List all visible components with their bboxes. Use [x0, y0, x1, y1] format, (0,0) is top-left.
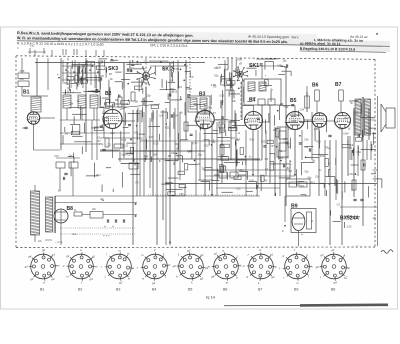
- svg-text:C34: C34: [174, 115, 179, 118]
- svg-text:50p: 50p: [144, 155, 149, 158]
- svg-text:0,5M: 0,5M: [343, 133, 348, 136]
- svg-text:R: R: [311, 219, 313, 223]
- svg-text:50p: 50p: [304, 170, 309, 173]
- svg-text:R15: R15: [204, 145, 209, 148]
- svg-text:=: =: [17, 46, 19, 50]
- svg-text:R15: R15: [261, 141, 266, 144]
- svg-text:g1: g1: [52, 252, 56, 256]
- svg-text:ac 466kHz afgel. 3x 4b 12: ac 466kHz afgel. 3x 4b 12: [300, 41, 341, 46]
- svg-text:g2: g2: [316, 265, 320, 269]
- svg-text:2M: 2M: [153, 154, 156, 157]
- svg-text:0,05: 0,05: [154, 143, 159, 146]
- svg-text:g2: g2: [42, 248, 46, 252]
- svg-text:50p: 50p: [144, 61, 149, 64]
- svg-text:g4: g4: [334, 281, 338, 285]
- svg-text:C12: C12: [124, 144, 129, 147]
- svg-text:B1: B1: [23, 90, 30, 96]
- svg-text:2M: 2M: [176, 68, 179, 71]
- svg-text:g1: g1: [30, 277, 34, 281]
- svg-text:B6: B6: [312, 83, 319, 89]
- svg-text:B3: B3: [199, 92, 206, 98]
- svg-text:B2: B2: [105, 91, 112, 97]
- svg-text:g2: g2: [119, 281, 123, 285]
- svg-text:0,5M: 0,5M: [211, 84, 216, 87]
- svg-text:0,5M: 0,5M: [216, 66, 221, 69]
- svg-text:B5: B5: [290, 98, 297, 104]
- svg-text:R15: R15: [310, 181, 315, 184]
- svg-text:R15: R15: [250, 139, 255, 142]
- svg-text:25p: 25p: [283, 59, 288, 62]
- svg-text:R15: R15: [370, 119, 375, 122]
- svg-text:2M: 2M: [202, 168, 205, 171]
- svg-text:25p: 25p: [288, 128, 293, 131]
- svg-text:g2: g2: [344, 275, 348, 279]
- svg-text:50p: 50p: [366, 132, 371, 135]
- svg-text:2M: 2M: [135, 100, 138, 103]
- svg-text:C12: C12: [110, 132, 115, 135]
- svg-text:B6: B6: [331, 288, 335, 292]
- svg-text:0,5M: 0,5M: [283, 141, 288, 144]
- svg-text:50p: 50p: [115, 99, 120, 102]
- svg-text:0,05: 0,05: [347, 225, 352, 228]
- svg-text:0,05: 0,05: [338, 128, 343, 131]
- svg-text:g2: g2: [187, 248, 191, 252]
- svg-text:C34: C34: [145, 82, 150, 85]
- svg-text:R21: R21: [345, 117, 350, 120]
- svg-text:R21: R21: [194, 120, 199, 123]
- svg-text:g1: g1: [66, 254, 70, 258]
- svg-text:+: +: [57, 73, 59, 77]
- svg-text:C34: C34: [300, 109, 305, 112]
- svg-text:0,5M: 0,5M: [277, 65, 282, 68]
- svg-text:R21: R21: [126, 154, 131, 157]
- svg-text:B8: B8: [67, 206, 74, 212]
- svg-text:g2: g2: [173, 264, 177, 268]
- svg-text:~ C,D: ~ C,D: [55, 240, 62, 244]
- svg-text:BX524A: BX524A: [340, 216, 359, 222]
- svg-text:g1: g1: [270, 252, 274, 256]
- svg-text:- - -: - - -: [355, 244, 359, 247]
- svg-text:50p: 50p: [284, 66, 289, 69]
- svg-text:B9: B9: [294, 288, 298, 292]
- svg-text:0,5M: 0,5M: [314, 128, 319, 131]
- svg-text:C56: C56: [292, 120, 297, 123]
- svg-text:2M: 2M: [168, 155, 171, 158]
- svg-text:g4: g4: [211, 275, 215, 279]
- svg-text:C56: C56: [179, 193, 184, 196]
- svg-text:50p: 50p: [300, 185, 305, 188]
- svg-text:R15: R15: [78, 77, 83, 80]
- svg-text:C34: C34: [315, 175, 320, 178]
- svg-text:g2: g2: [200, 276, 204, 280]
- svg-text:g1: g1: [25, 264, 29, 268]
- svg-text:0,05: 0,05: [149, 136, 154, 139]
- svg-text:Iq 14: Iq 14: [206, 295, 216, 300]
- svg-text:+ + +: + + +: [103, 234, 110, 238]
- svg-text:+: +: [301, 233, 303, 237]
- svg-text:0,5M: 0,5M: [186, 88, 191, 91]
- svg-text:R15: R15: [217, 170, 222, 173]
- svg-text:g4: g4: [331, 248, 335, 252]
- svg-text:0,5M: 0,5M: [250, 97, 255, 100]
- svg-text:25p: 25p: [99, 143, 104, 146]
- svg-text:C87: C87: [20, 77, 25, 81]
- svg-text:g2: g2: [152, 281, 156, 285]
- svg-text:B6: B6: [223, 288, 227, 292]
- svg-text:B4: B4: [152, 288, 156, 292]
- svg-text:25p: 25p: [147, 94, 152, 97]
- svg-text:C34: C34: [373, 169, 378, 172]
- svg-text:g1: g1: [321, 253, 325, 257]
- svg-text:AvL: AvL: [71, 232, 77, 236]
- svg-text:g1: g1: [214, 252, 218, 256]
- svg-text:50p: 50p: [208, 107, 213, 110]
- svg-text:g2: g2: [92, 255, 96, 259]
- svg-text:R15: R15: [230, 137, 235, 140]
- svg-text:C72: C72: [54, 154, 59, 158]
- svg-text:R21: R21: [96, 174, 101, 177]
- svg-text:g4: g4: [90, 277, 94, 281]
- svg-text:Aa 46.13 av: Aa 46.13 av: [350, 35, 368, 39]
- svg-text:g4: g4: [28, 254, 32, 258]
- svg-text:C34: C34: [349, 173, 354, 176]
- svg-text:B5: B5: [188, 288, 192, 292]
- svg-text:0,05: 0,05: [169, 62, 174, 65]
- svg-text:B3: B3: [116, 288, 120, 292]
- svg-text:50p: 50p: [214, 74, 219, 77]
- svg-text:SK3: SK3: [108, 66, 118, 72]
- svg-text:Ah: Ah: [38, 239, 42, 243]
- svg-text:50p: 50p: [170, 88, 175, 91]
- svg-text:25p: 25p: [81, 64, 86, 67]
- svg-text:C12: C12: [102, 112, 107, 115]
- svg-text:R15: R15: [320, 155, 325, 158]
- svg-text:B1: B1: [40, 288, 44, 292]
- svg-text:CPL L C50 A.2.3.4: CPL L C50 A.2.3.4.4 OvL: [150, 43, 188, 48]
- svg-text:+: +: [112, 225, 114, 229]
- svg-text:0,05: 0,05: [219, 95, 224, 98]
- svg-text:C56: C56: [63, 82, 68, 85]
- svg-text:C34: C34: [356, 151, 361, 154]
- svg-text:C12: C12: [231, 121, 236, 124]
- svg-text:g2: g2: [51, 277, 55, 281]
- svg-text:B7: B7: [258, 288, 262, 292]
- svg-text:R21: R21: [143, 77, 148, 80]
- svg-text:0,05: 0,05: [99, 75, 104, 78]
- svg-text:C56: C56: [227, 120, 232, 123]
- svg-text:C56: C56: [304, 139, 309, 142]
- svg-text:0,05: 0,05: [121, 139, 126, 142]
- svg-text:0,05: 0,05: [249, 180, 254, 183]
- svg-text:B7: B7: [335, 82, 342, 88]
- svg-text:Al 45.44.13 Spanning gem. Ser: Al 45.44.13 Spanning gem. Serv.: [248, 35, 299, 40]
- svg-text:C4: C4: [350, 143, 354, 147]
- svg-text:R15: R15: [316, 141, 321, 144]
- svg-text:0,5M: 0,5M: [238, 169, 243, 172]
- svg-text:0,05: 0,05: [132, 131, 137, 134]
- svg-text:C12: C12: [107, 143, 112, 146]
- svg-text:+: +: [104, 225, 106, 229]
- svg-text:C34: C34: [224, 68, 229, 71]
- svg-text:7,5: 7,5: [30, 44, 34, 48]
- svg-text:g4: g4: [271, 275, 275, 279]
- svg-text:B2: B2: [78, 288, 82, 292]
- svg-text:g2: g2: [200, 253, 204, 257]
- svg-text:Ch: Ch: [92, 207, 96, 211]
